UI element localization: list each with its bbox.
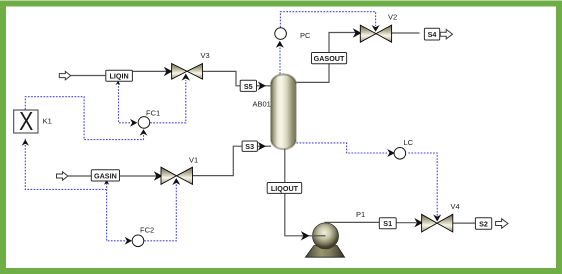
svg-text:V2: V2 <box>388 13 397 22</box>
svg-text:S1: S1 <box>383 219 392 228</box>
svg-text:X: X <box>19 107 33 137</box>
svg-text:S2: S2 <box>479 220 488 229</box>
svg-text:AB01: AB01 <box>253 99 271 108</box>
svg-text:FC2: FC2 <box>140 226 154 235</box>
svg-text:V3: V3 <box>201 51 210 60</box>
svg-text:S4: S4 <box>428 30 437 39</box>
svg-text:K1: K1 <box>43 117 52 126</box>
svg-text:S3: S3 <box>245 142 254 151</box>
svg-text:LC: LC <box>404 138 414 147</box>
svg-text:LIQOUT: LIQOUT <box>271 184 299 193</box>
svg-text:GASIN: GASIN <box>94 171 117 180</box>
svg-text:FC1: FC1 <box>146 109 160 118</box>
svg-text:GASOUT: GASOUT <box>314 54 345 63</box>
svg-text:P1: P1 <box>356 210 365 219</box>
svg-text:V4: V4 <box>451 202 460 211</box>
svg-text:S5: S5 <box>244 82 253 91</box>
svg-text:PC: PC <box>300 31 311 40</box>
svg-text:LIQIN: LIQIN <box>110 72 129 81</box>
svg-text:V1: V1 <box>189 156 198 165</box>
